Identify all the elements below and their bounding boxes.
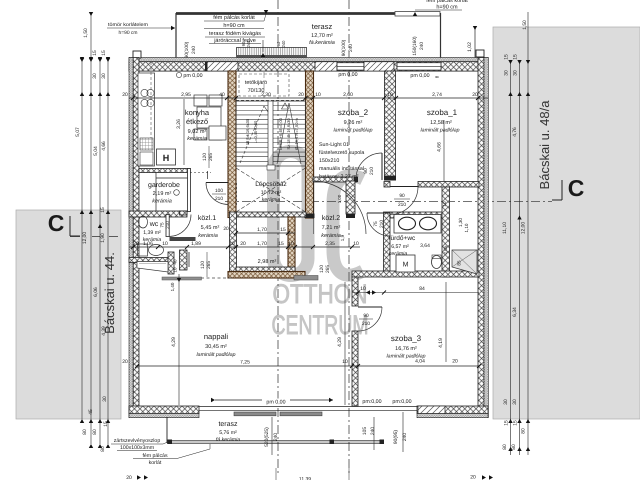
svg-text:30: 30 (503, 399, 509, 405)
svg-text:1,00: 1,00 (337, 194, 342, 203)
svg-text:30: 30 (92, 73, 98, 79)
svg-text:90: 90 (363, 313, 369, 319)
svg-text:85: 85 (457, 260, 462, 266)
svg-text:30: 30 (102, 396, 108, 402)
door szoba2 (381, 153, 383, 180)
furdo sink 2 (420, 217, 437, 230)
svg-text:210: 210 (165, 221, 170, 229)
svg-text:20: 20 (240, 241, 246, 247)
svg-text:20: 20 (223, 226, 229, 232)
svg-text:pm 0,00: pm 0,00 (266, 400, 285, 406)
kitchen counter and appliances (138, 73, 155, 166)
svg-text:11,10: 11,10 (502, 222, 508, 234)
svg-text:1,90: 1,90 (100, 233, 106, 243)
svg-text:1,70: 1,70 (257, 227, 267, 233)
wall szoba2 bottom (313, 177, 357, 182)
door lepcsohaz/kozl2 (314, 181, 367, 234)
window band szoba2a (337, 63, 364, 70)
svg-text:20: 20 (122, 92, 128, 98)
svg-text:90(100): 90(100) (341, 39, 347, 56)
wall outer right insulation (484, 58, 488, 418)
svg-text:10: 10 (173, 267, 178, 273)
svg-text:Sun-Light 01: Sun-Light 01 (319, 142, 349, 148)
svg-text:10,72 m²: 10,72 m² (261, 190, 282, 196)
wall konyha/garderobe (139, 169, 190, 173)
window band szoba1 (397, 63, 441, 70)
svg-text:30,45 m²: 30,45 m² (205, 344, 227, 350)
dim chain top rooms y98 (129, 97, 488, 99)
svg-text:1,06: 1,06 (143, 241, 153, 247)
svg-text:Ø=16,6 R=7,50 m: Ø=16,6 R=7,50 m (294, 117, 299, 149)
svg-text:füstelvezető kupola: füstelvezető kupola (319, 150, 364, 156)
svg-text:fá.kerámia: fá.kerámia (309, 39, 335, 46)
svg-text:zártszevlvényoszlop: zártszevlvényoszlop (114, 438, 161, 444)
svg-text:9,26 m²: 9,26 m² (344, 120, 363, 126)
svg-text:210: 210 (398, 202, 406, 208)
svg-text:16,76 m²: 16,76 m² (395, 346, 417, 352)
svg-text:210: 210 (215, 196, 223, 202)
terrace skylight opening (237, 48, 307, 58)
door kozl1 top (206, 182, 228, 184)
kitchen table and chairs (197, 107, 221, 128)
svg-text:12,58 m²: 12,58 m² (430, 120, 452, 126)
svg-text:80: 80 (521, 428, 527, 434)
svg-text:9,02 m²: 9,02 m² (188, 129, 207, 135)
lepcsohaz X cross (236, 168, 306, 212)
svg-text:20: 20 (122, 359, 128, 365)
wall garderobe right (188, 169, 191, 212)
svg-text:240: 240 (281, 40, 286, 48)
svg-text:11,39: 11,39 (299, 477, 311, 480)
svg-text:laminált padlólap: laminált padlólap (421, 128, 460, 134)
window top stairwell (315, 62, 337, 71)
skylight pm boxes (237, 60, 260, 67)
svg-text:2,74: 2,74 (432, 92, 442, 98)
svg-text:240: 240 (370, 427, 376, 435)
dim 4.19 szoba3 (445, 282, 447, 362)
dim chain nappali y366 (137, 365, 479, 367)
wall outer top (129, 62, 488, 71)
svg-text:laminált padlólap: laminált padlólap (334, 128, 373, 134)
svg-text:120: 120 (319, 265, 325, 273)
wall wc right lower (180, 250, 188, 270)
svg-text:240: 240 (191, 46, 197, 54)
svg-text:5,76 m²: 5,76 m² (219, 430, 237, 436)
svg-text:kerámia: kerámia (152, 198, 172, 205)
door szoba3 (358, 306, 382, 308)
svg-text:30: 30 (512, 399, 518, 405)
svg-text:10: 10 (442, 201, 447, 207)
terrace top railing corner (440, 13, 442, 63)
left exterior dim chains (81, 57, 83, 419)
svg-text:210: 210 (379, 220, 385, 228)
svg-text:2,98 m²: 2,98 m² (258, 259, 277, 265)
svg-text:7,25: 7,25 (240, 360, 250, 366)
svg-text:20: 20 (472, 92, 478, 98)
wall outer right (478, 58, 484, 418)
svg-text:6,06: 6,06 (93, 287, 99, 297)
svg-text:75: 75 (160, 222, 165, 228)
svg-text:terasz: terasz (218, 421, 238, 428)
svg-text:40: 40 (173, 259, 178, 265)
svg-text:520(525): 520(525) (264, 427, 270, 447)
svg-text:4,76: 4,76 (512, 127, 518, 137)
svg-text:étkező: étkező (186, 117, 208, 126)
svg-text:1,40: 1,40 (170, 282, 175, 291)
svg-text:fém pálcás korlát: fém pálcás korlát (426, 0, 468, 4)
terrace top dim 1.02 (474, 26, 476, 60)
wall room298 right (brown) (288, 217, 295, 277)
svg-text:2,19 m²: 2,19 m² (153, 191, 172, 197)
svg-text:15: 15 (100, 207, 106, 213)
svg-text:nappali: nappali (204, 332, 229, 341)
svg-text:15: 15 (278, 241, 284, 247)
svg-text:pm:0,00: pm:0,00 (392, 399, 411, 405)
dim szoba3 10/84 (352, 292, 479, 294)
wall room298 bottom (236, 267, 295, 274)
svg-text:105: 105 (362, 427, 368, 435)
svg-text:265: 265 (325, 265, 331, 273)
svg-text:h=90 cm: h=90 cm (223, 23, 245, 29)
wall room298 top (236, 212, 306, 217)
svg-text:15: 15 (513, 54, 519, 60)
svg-text:kerámia: kerámia (187, 135, 207, 142)
svg-text:5,45 m²: 5,45 m² (201, 225, 220, 231)
wall stair left (brown) (228, 71, 236, 218)
svg-text:15: 15 (92, 50, 98, 56)
wall below stairs brown band (228, 272, 305, 279)
svg-text:15: 15 (101, 50, 107, 56)
svg-text:4,19: 4,19 (438, 338, 444, 348)
window top konyha (207, 62, 238, 71)
svg-text:kerámia: kerámia (262, 197, 281, 203)
svg-text:240: 240 (419, 42, 425, 50)
wc toilet (138, 244, 148, 256)
right exterior dim chains (510, 60, 512, 455)
furdo washing machine (396, 255, 415, 272)
svg-text:120: 120 (202, 153, 208, 161)
svg-text:hatásos: 2,27 m²: hatásos: 2,27 m² (319, 174, 359, 180)
bottom window dims (271, 417, 273, 455)
svg-text:h=90 cm: h=90 cm (436, 5, 458, 11)
wall stair right (brown) (306, 71, 314, 218)
svg-text:Sz:18 db 16,6x30: Sz:18 db 16,6x30 (286, 118, 291, 150)
furdo sink 1 (399, 217, 416, 230)
svg-text:210: 210 (362, 321, 370, 327)
svg-text:pm:0,00: pm:0,00 (362, 399, 381, 405)
svg-text:20: 20 (298, 92, 304, 98)
stairs flights (236, 101, 306, 166)
svg-text:150x210: 150x210 (319, 158, 339, 164)
svg-text:közl.2: közl.2 (322, 214, 340, 222)
svg-text:kerámia: kerámia (198, 232, 218, 239)
svg-text:12,70 m²: 12,70 m² (311, 33, 333, 39)
svg-text:7,21 m²: 7,21 m² (322, 225, 341, 231)
wall szoba2/szoba1 (385, 71, 396, 176)
svg-text:2,35: 2,35 (325, 241, 335, 247)
svg-text:5,07: 5,07 (75, 127, 81, 137)
svg-text:tömör korlátelem: tömör korlátelem (108, 22, 148, 28)
svg-text:laminált padlólap: laminált padlólap (197, 352, 236, 358)
furdo toilet (432, 256, 442, 269)
svg-text:20: 20 (133, 241, 139, 247)
svg-text:garderobe: garderobe (148, 181, 180, 189)
svg-text:szoba_1: szoba_1 (427, 108, 458, 117)
terrace top railing gate segment (395, 12, 440, 17)
wall outer bottom left segment (129, 406, 199, 414)
svg-text:szoba_2: szoba_2 (338, 108, 369, 117)
wall outer left insulation (129, 58, 133, 418)
svg-text:120: 120 (200, 261, 206, 269)
watermark OC logo (274, 152, 364, 276)
svg-text:fém pálcás: fém pálcás (142, 453, 167, 459)
wall wc right upper (180, 211, 188, 215)
svg-text:1,10: 1,10 (464, 223, 469, 232)
svg-text:4,04: 4,04 (415, 359, 425, 365)
svg-text:240: 240 (246, 40, 251, 48)
svg-text:szoba_3: szoba_3 (391, 334, 422, 343)
dim 4.29 right (344, 282, 346, 405)
svg-text:terasz: terasz (312, 22, 333, 31)
svg-text:terasz födém kivágás: terasz födém kivágás (209, 30, 261, 37)
section line vertical right (348, 0, 350, 474)
wall szoba3 left upper (352, 277, 358, 306)
svg-text:80: 80 (502, 444, 508, 450)
svg-text:1,50: 1,50 (522, 20, 528, 30)
svg-text:20: 20 (452, 359, 458, 365)
beam dashed nappali top (201, 277, 232, 279)
svg-text:wc: wc (149, 221, 159, 228)
wc sink symbol (139, 216, 148, 228)
svg-text:75: 75 (373, 221, 379, 227)
svg-text:pm 0,00: pm 0,00 (410, 73, 429, 79)
dim 4.29 nappali (178, 274, 180, 405)
svg-text:30: 30 (504, 70, 510, 76)
svg-text:4,29: 4,29 (337, 337, 343, 347)
svg-text:10: 10 (315, 92, 321, 98)
svg-text:10: 10 (162, 241, 168, 247)
svg-text:C: C (568, 175, 585, 201)
svg-text:1,30: 1,30 (458, 218, 463, 227)
svg-text:korlát: korlát (149, 460, 162, 466)
terrace top railing (176, 12, 395, 15)
dim chain middle y247 (129, 246, 360, 248)
svg-text:1,02: 1,02 (467, 42, 473, 52)
wall furdo/shaft (442, 187, 450, 277)
shaft (452, 250, 477, 274)
svg-text:Bácskai u. 48/a: Bácskai u. 48/a (537, 100, 552, 190)
wall wc bottom (129, 258, 168, 263)
svg-text:100x100x3mm: 100x100x3mm (120, 445, 154, 451)
window top szoba2b (364, 62, 394, 71)
terrace floor edge strip (176, 58, 441, 63)
svg-text:240: 240 (348, 44, 354, 52)
svg-text:40: 40 (219, 92, 225, 98)
svg-text:80: 80 (511, 444, 517, 450)
svg-text:h=90 cm: h=90 cm (119, 30, 138, 36)
sliding door kozl2/nappali (294, 276, 318, 281)
svg-text:210: 210 (369, 167, 375, 175)
svg-text:150(160): 150(160) (412, 36, 418, 56)
svg-text:15: 15 (280, 227, 286, 233)
svg-text:100: 100 (215, 188, 223, 194)
svg-text:10: 10 (288, 241, 294, 247)
washbasin below wc (137, 262, 168, 273)
svg-text:3,26: 3,26 (176, 119, 182, 129)
svg-text:tetőkijáró: tetőkijáró (245, 79, 267, 86)
terrace bottom posts (168, 440, 173, 445)
garderobe closet lines (155, 173, 157, 212)
svg-text:konyha: konyha (185, 108, 210, 117)
wall room298 left (230, 212, 237, 274)
svg-text:10: 10 (360, 286, 366, 292)
svg-text:3,64: 3,64 (420, 243, 430, 249)
wall szoba3 left lower (352, 331, 358, 406)
svg-text:10: 10 (353, 241, 359, 247)
svg-text:közl.1: közl.1 (198, 214, 216, 222)
svg-text:45: 45 (88, 409, 94, 415)
door furdo (367, 212, 390, 214)
door wc (166, 215, 169, 237)
svg-text:fá.kerámia: fá.kerámia (216, 437, 240, 443)
svg-text:1,39 m²: 1,39 m² (143, 230, 161, 236)
svg-text:240: 240 (402, 433, 408, 441)
wall outer left (133, 58, 139, 418)
svg-text:1,89: 1,89 (191, 241, 201, 247)
svg-text:fém pálcás korlát: fém pálcás korlát (213, 14, 255, 21)
svg-text:manuális indítással: manuális indítással (319, 166, 364, 172)
svg-text:30: 30 (101, 73, 107, 79)
svg-text:LÉÉR +6,45=0,00: LÉÉR +6,45=0,00 (278, 117, 283, 150)
street band right (Bacskai u. 48/a) (493, 27, 640, 419)
sliding door bottom nappali (199, 406, 417, 408)
svg-text:90: 90 (399, 193, 405, 199)
wall szoba1 bottom (418, 182, 479, 188)
chimney box left (133, 51, 141, 58)
svg-text:4,39: 4,39 (101, 326, 107, 336)
svg-text:240: 240 (273, 433, 279, 441)
svg-text:4,66: 4,66 (101, 141, 107, 151)
svg-text:4,29: 4,29 (171, 337, 177, 347)
svg-text:20: 20 (126, 475, 132, 480)
wall szoba1 bottom stub (384, 182, 390, 188)
furdo sink counter (394, 215, 441, 234)
svg-text:4,66: 4,66 (437, 142, 443, 152)
svg-text:10: 10 (229, 241, 235, 247)
street band left (Bacskai u. 44.) (16, 210, 121, 419)
svg-text:2,05: 2,05 (443, 245, 448, 254)
svg-text:12,00: 12,00 (82, 232, 88, 245)
svg-text:90(95): 90(95) (393, 430, 399, 445)
svg-text:pm 0,00: pm 0,00 (338, 72, 357, 78)
section line C-C horizontal (225, 201, 552, 203)
kitchen H box (157, 149, 176, 165)
svg-text:Bácskai u. 44.: Bácskai u. 44. (102, 252, 117, 334)
svg-text:kerámia: kerámia (321, 232, 341, 239)
wall furdo top (390, 212, 444, 218)
svg-text:H: H (163, 153, 170, 163)
dim chain y233 (236, 232, 295, 234)
terrace bottom railing (167, 440, 384, 442)
pm label nappali arrows (215, 399, 333, 401)
svg-text:90(100): 90(100) (184, 41, 190, 58)
dim 4.66 szoba1 (443, 120, 445, 181)
svg-text:5,04: 5,04 (93, 146, 99, 156)
svg-text:20: 20 (470, 475, 476, 480)
wall outer bottom right segment (417, 406, 488, 414)
svg-text:1,70: 1,70 (257, 241, 267, 247)
svg-text:L=0,45+0,00: L=0,45+0,00 (253, 120, 258, 143)
section line vertical left (277, 0, 279, 474)
chimney box right (476, 50, 484, 57)
wall furdo left (384, 212, 391, 277)
svg-text:84: 84 (419, 286, 425, 292)
svg-text:18 fok 16,6x30: 18 fok 16,6x30 (245, 118, 250, 145)
svg-text:2,95: 2,95 (181, 92, 191, 98)
wall kozl2 lobby (346, 181, 355, 214)
svg-text:6,34: 6,34 (512, 307, 518, 317)
svg-text:6,57 m²: 6,57 m² (391, 244, 409, 250)
svg-text:15: 15 (103, 421, 109, 427)
svg-text:fürdő+wc: fürdő+wc (389, 235, 416, 242)
wall garderobe/wc (129, 211, 187, 217)
svg-text:kerámia: kerámia (389, 251, 408, 257)
svg-text:C: C (48, 210, 65, 236)
niche line (188, 252, 190, 267)
svg-text:1,9: 1,9 (340, 234, 345, 241)
svg-text:80: 80 (82, 429, 88, 435)
svg-text:80: 80 (92, 429, 98, 435)
dim 3.26 konyha (183, 99, 185, 165)
tetokijaro dashed box (239, 74, 289, 96)
svg-text:10: 10 (387, 92, 393, 98)
svg-text:1,50: 1,50 (83, 28, 89, 38)
svg-text:pm 0,00: pm 0,00 (183, 73, 202, 79)
svg-text:30: 30 (513, 70, 519, 76)
svg-text:2,60: 2,60 (343, 92, 353, 98)
svg-text:M: M (403, 262, 409, 269)
svg-text:80: 80 (100, 446, 106, 452)
door szoba1 (390, 186, 418, 188)
wall furdo bottom / szoba3 top (352, 271, 479, 277)
wall outer top insulation (129, 58, 488, 62)
wall niche right (168, 252, 174, 274)
svg-text:Lépcsöház: Lépcsöház (255, 181, 286, 188)
svg-text:12,00: 12,00 (521, 222, 527, 235)
svg-text:2,30: 2,30 (261, 92, 271, 98)
svg-text:15: 15 (504, 54, 510, 60)
